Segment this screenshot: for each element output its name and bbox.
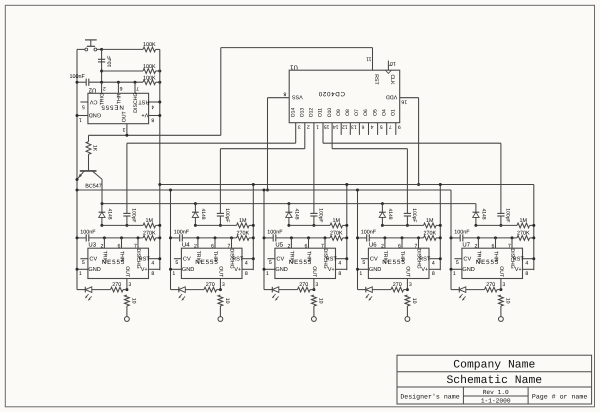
pin 1 GND U3 [77,268,88,270]
timer IC U3 NE555 [88,248,149,278]
pin 1 GND U7 [451,268,462,270]
capacitor C2 100nF [85,79,87,86]
wire base [88,154,90,171]
svg-text:4: 4 [525,260,528,266]
wire to R base [88,135,90,141]
svg-text:270K: 270K [143,231,156,237]
pin 5 CV U6 stub [361,258,369,260]
wire O14 left run [127,142,296,144]
pin 1 O12 U1 [313,123,315,135]
svg-text:THR: THR [492,251,498,262]
svg-text:7: 7 [389,123,392,129]
resistor R5a 1M [517,223,530,228]
svg-text:100K: 100K [143,42,156,48]
pin 12 O9 U1 [340,123,342,135]
svg-text:O4: O4 [381,109,387,116]
wire trig net mod3 [276,237,330,239]
pin 3 OUT U4 [219,279,221,290]
svg-text:CV: CV [370,257,378,263]
wire riser OUT to top [220,48,222,136]
terminal J3 [312,317,317,322]
wire led-res [279,289,298,291]
wire trig bus U2 [89,81,143,83]
wire to terminal [406,306,408,317]
svg-text:CV: CV [276,257,284,263]
wire O10 down [331,135,333,149]
svg-text:8: 8 [151,271,154,277]
resistor R1d 10 [125,295,130,306]
resistor R 1K [86,142,91,155]
wire thr net mod5 [476,224,517,226]
svg-text:4: 4 [432,260,435,266]
diode D5 4148 [473,211,480,213]
wire to R 100K mid [102,70,143,72]
svg-text:VDD: VDD [386,94,397,100]
terminal J2 [218,317,223,322]
svg-text:10uF: 10uF [107,56,113,68]
svg-text:GND: GND [275,267,287,273]
timer IC U6 NE555 [368,248,429,278]
svg-text:THR: THR [118,251,124,262]
svg-text:10: 10 [130,298,136,304]
pin 3 OUT U5 [313,279,315,290]
capacitor C4a 100pF [404,212,411,214]
capacitor C5a 100pF [497,212,504,214]
svg-text:O8: O8 [345,109,351,116]
svg-text:1: 1 [266,271,269,277]
svg-text:5: 5 [82,103,85,109]
wire V+ rail mod5 [533,185,535,271]
pin 6 THR U6 [401,238,403,248]
svg-text:16: 16 [401,98,407,104]
svg-text:RST: RST [139,257,151,263]
svg-text:14: 14 [333,123,339,129]
pin 2 TRIG U4 [197,238,199,248]
wire led-res [466,289,485,291]
resistor R3d 10 [312,295,317,306]
terminal J5 [499,317,504,322]
wire to terminal [313,306,315,317]
title block [397,355,592,404]
svg-text:V+: V+ [328,267,335,273]
diode D3 4148 top lead [288,204,290,213]
wire trig net mod1 [89,237,143,239]
svg-text:10: 10 [224,298,230,304]
svg-text:270K: 270K [237,231,250,237]
LED emission arrows [179,294,182,297]
wire led-gnd [451,289,459,291]
svg-text:TRIG: TRIG [101,251,107,263]
LED D4L [365,287,367,293]
svg-text:U2: U2 [88,86,96,93]
svg-text:2: 2 [100,243,103,249]
node THR junction [117,81,120,84]
wire led-res [92,289,111,291]
svg-text:1: 1 [359,271,362,277]
LED emission arrows [366,294,369,297]
svg-text:100nF: 100nF [70,74,86,80]
svg-text:CD4020: CD4020 [318,90,345,97]
svg-text:3: 3 [128,282,131,288]
svg-text:4: 4 [151,103,154,109]
svg-text:8: 8 [432,271,435,277]
wire led-gnd [171,289,179,291]
svg-text:RST: RST [326,257,338,263]
resistor R3c 270 [298,287,311,292]
svg-text:V+: V+ [421,267,428,273]
pin 8 VSS wire [268,97,290,99]
LED emission arrows [460,294,463,297]
wire gnd to C5b [451,237,460,239]
pin 1 GND U2 [77,115,88,117]
svg-text:OUT: OUT [311,266,317,278]
wire V+ bus [160,184,534,186]
svg-text:U3: U3 [88,242,96,249]
wire R2 to rail [156,70,160,72]
wire V+ right rail [159,49,161,270]
pin 3 OUT U6 [406,279,408,290]
wire GND rail mod2 [170,190,172,290]
node OUT junction [125,134,128,137]
wire O12 to C mod3 [313,135,315,214]
pin 8 V+ U3 [149,268,160,270]
resistor R2c 270 [204,287,217,292]
svg-text:V+: V+ [141,267,148,273]
svg-text:O14: O14 [290,108,296,118]
svg-text:1: 1 [79,271,82,277]
svg-text:OUT: OUT [498,266,504,278]
svg-text:1M: 1M [520,218,528,224]
svg-text:100nF: 100nF [174,230,190,236]
svg-text:270K: 270K [517,231,530,237]
svg-text:TRIG: TRIG [288,251,294,263]
resistor R5c 270 [485,287,498,292]
svg-text:U7: U7 [462,242,470,249]
svg-text:100pF: 100pF [224,208,230,222]
svg-text:5: 5 [175,260,178,266]
svg-text:OUT: OUT [122,110,128,122]
svg-text:4148: 4148 [294,208,300,219]
pushbutton switch SW [85,39,97,41]
wire O10 right run [332,148,407,150]
timer IC U2 NE555 [88,93,149,123]
pin 7 O4 U1 [386,123,388,135]
pin 10 CLK stub [387,61,389,71]
wire gnd to C2b [171,237,180,239]
svg-text:100pF: 100pF [411,208,417,222]
svg-text:4: 4 [151,260,154,266]
svg-text:4: 4 [245,260,248,266]
pin 13 O8 U1 [349,123,351,135]
wire trigger/diode bus (collector) [102,203,476,205]
timer IC U5 NE555 [275,248,336,278]
svg-text:GND: GND [369,267,381,273]
svg-text:5: 5 [269,260,272,266]
svg-text:THR: THR [399,251,405,262]
svg-text:100pF: 100pF [318,208,324,222]
wire switch right [97,48,102,50]
node switch/R-top junction [100,48,103,51]
pin 2 TRIG U2 [101,82,103,93]
resistor R5d 10 [499,295,504,306]
pin 6 THR U5 [308,238,310,248]
svg-text:100pF: 100pF [131,208,137,222]
resistor R 100K mid [143,69,156,74]
wire to terminal [219,306,221,317]
svg-text:U1: U1 [290,64,298,71]
wire VDD drop to V+ bus [418,98,420,185]
pin 7 DISCHG U7 [511,238,513,248]
resistor R1a 1M [143,223,156,228]
wire O13 down [304,135,306,149]
svg-text:O13: O13 [300,108,306,118]
svg-text:2: 2 [307,123,310,129]
pin 2 TRIG U7 [477,238,479,248]
svg-text:2: 2 [194,243,197,249]
svg-text:CV: CV [89,98,97,104]
svg-text:1M: 1M [146,218,154,224]
svg-text:6: 6 [211,243,214,249]
pin 14 O10 U1 [331,123,333,135]
svg-text:100K: 100K [143,64,156,70]
svg-text:100nF: 100nF [80,230,96,236]
pin 7 DISCH U2 [134,82,136,93]
pin 15 O11 U1 [322,123,324,135]
pin 4 RST U5 [336,258,347,260]
wire GND rail mod4 [357,190,359,290]
pin 9 O1 U1 [395,123,397,135]
svg-text:1-1-2000: 1-1-2000 [481,397,511,404]
svg-text:1K: 1K [92,145,98,152]
pin 2 TRIG U3 [103,238,105,248]
wire led-gnd [77,289,85,291]
svg-text:6: 6 [492,243,495,249]
pin 6 O7 U1 [358,123,360,135]
svg-text:VSS: VSS [292,94,303,100]
svg-text:10: 10 [390,60,396,66]
svg-text:8: 8 [245,271,248,277]
diode D4 4148 [379,211,386,213]
transistor Q1 BC547 [80,170,97,172]
svg-text:RST: RST [419,257,431,263]
svg-text:OUT: OUT [404,266,410,278]
svg-text:DISCHG: DISCHG [133,93,139,113]
wire O13 left run [220,148,304,150]
svg-text:6: 6 [305,243,308,249]
pin 4 RST U4 [242,258,253,260]
wire O10 to C mod4 [406,149,408,214]
svg-text:RST: RST [232,257,244,263]
svg-text:1: 1 [172,271,175,277]
CLK pin edge mark [385,70,391,73]
resistor R1b 270K [143,236,156,241]
svg-text:2: 2 [287,243,290,249]
svg-text:12: 12 [342,123,348,129]
pin 7 DISCHG U4 [231,238,233,248]
capacitor C4b 100nF [366,234,368,241]
wire trig net mod4 [369,237,423,239]
svg-text:O1: O1 [391,109,397,116]
capacitor C3a 100pF [310,212,317,214]
svg-text:100nF: 100nF [454,230,470,236]
svg-text:O6: O6 [363,109,369,116]
svg-text:8: 8 [525,271,528,277]
svg-text:1: 1 [79,116,82,122]
svg-text:THR: THR [305,251,311,262]
svg-text:10: 10 [504,298,510,304]
svg-text:100nF: 100nF [361,230,377,236]
svg-text:6: 6 [120,85,123,91]
svg-text:270K: 270K [424,231,437,237]
svg-text:4: 4 [370,123,373,129]
wire gnd to C2 [77,81,86,83]
pin 11 RST U1 wire [372,48,374,71]
svg-text:O10: O10 [327,108,333,118]
pin 4 RST U6 [429,258,440,260]
terminal J1 [125,317,130,322]
pin 8 V+ U4 [242,268,253,270]
wire switch left [77,48,85,50]
wire top run to RST [221,47,373,49]
svg-text:10: 10 [411,298,417,304]
pin 5 CV U7 stub [454,258,462,260]
svg-text:GND: GND [89,111,101,117]
pin 1 GND U5 [264,268,275,270]
resistor R4c 270 [391,287,404,292]
svg-text:3: 3 [298,123,301,129]
svg-text:O12: O12 [309,108,315,118]
svg-text:Page # or name: Page # or name [532,393,587,400]
pin 6 THR U4 [214,238,216,248]
pin 8 V+ U6 [429,268,440,270]
diode D5 4148 top lead [475,204,477,213]
wire R1 to V+ rail [156,48,160,50]
capacitor C3b 100nF [272,234,274,241]
svg-text:O11: O11 [318,108,324,117]
wire GND bus [77,189,451,191]
svg-text:1: 1 [453,271,456,277]
diode D3 4148 [286,211,293,213]
svg-text:Designer's name: Designer's name [400,393,459,400]
svg-text:THR: THR [212,251,218,262]
svg-text:CLK: CLK [389,74,395,85]
wire GND left rail [76,49,78,289]
wire V+ rail mod4 [439,185,441,271]
svg-text:100K: 100K [143,75,156,81]
pin 8 V+ U5 [336,268,347,270]
svg-text:270: 270 [299,282,308,288]
node TRIG junction [100,81,103,84]
LED emission arrows [86,294,89,297]
svg-text:V+: V+ [515,267,522,273]
resistor R 100K top [143,47,156,52]
svg-text:8: 8 [151,116,154,122]
svg-text:270K: 270K [330,231,343,237]
svg-text:9: 9 [398,123,401,129]
svg-text:270: 270 [206,282,215,288]
terminal J4 [405,317,410,322]
pin 8 V+ U2 [149,115,160,117]
resistor R2d 10 [218,295,223,306]
pin 5 CV U5 stub [267,258,275,260]
svg-text:4: 4 [338,260,341,266]
svg-text:U4: U4 [182,242,190,249]
svg-text:TRIG: TRIG [100,93,106,105]
svg-text:V+: V+ [234,267,241,273]
svg-text:8: 8 [283,91,286,97]
node R2 tap [100,70,103,73]
wire O14 down [295,135,297,143]
capacitor C2b 100nF [179,234,181,241]
svg-text:3: 3 [409,282,412,288]
wire VSS drop to gnd bus [267,98,269,190]
timer IC U4 NE555 [181,248,242,278]
resistor R1c 270 [111,287,124,292]
svg-text:Company Name: Company Name [453,359,535,371]
wire GND rail mod3 [263,190,265,290]
resistor R3a 1M [330,223,343,228]
timer IC U7 NE555 [462,248,523,278]
svg-text:CV: CV [89,257,97,263]
pin 2 TRIG U5 [290,238,292,248]
svg-text:10: 10 [317,298,323,304]
diode D2 4148 [192,211,199,213]
resistor R5b 270K [517,236,530,241]
wire O11 to C mod5 [500,143,502,213]
pin 6 THR U2 [117,82,119,93]
wire gnd to C4b [358,237,367,239]
capacitor C 10uF [98,58,105,60]
wire V+ rail mod3 [346,185,348,271]
svg-text:RST: RST [138,98,150,104]
svg-text:5: 5 [380,123,383,129]
svg-text:5: 5 [82,260,85,266]
resistor R 100K bottom [143,80,156,85]
wire to terminal [126,306,128,317]
svg-text:15: 15 [324,123,330,129]
pin 3 OUT U7 [500,279,502,290]
wire O11 right run [323,142,501,144]
svg-text:TRIG: TRIG [195,251,201,263]
wire R3 to rail [156,81,160,83]
svg-text:TRIG: TRIG [382,251,388,263]
wire 10uF branch [101,49,103,82]
LED D2L [178,287,180,293]
resistor R2b 270K [237,236,250,241]
pin 5 CV U2 stub [80,101,88,103]
svg-text:O5: O5 [372,109,378,116]
wire V+ rail mod2 [252,185,254,271]
svg-text:O7: O7 [354,109,360,116]
pin 4 O6 U1 [368,123,370,135]
svg-text:3: 3 [502,282,505,288]
diode D4 4148 top lead [381,204,383,213]
svg-text:270: 270 [112,282,121,288]
svg-text:2: 2 [381,243,384,249]
wire collector drop [101,179,103,203]
wire led-gnd [358,289,366,291]
pin 1 GND U4 [171,268,182,270]
wire trig net mod2 [182,237,236,239]
svg-text:6: 6 [398,243,401,249]
wire led-res [372,289,391,291]
svg-text:8: 8 [338,271,341,277]
pin 6 THR U7 [495,238,497,248]
svg-text:RST: RST [373,74,379,85]
svg-text:BC547: BC547 [85,183,101,189]
resistor R4a 1M [424,223,437,228]
wire O11 down [322,135,324,143]
